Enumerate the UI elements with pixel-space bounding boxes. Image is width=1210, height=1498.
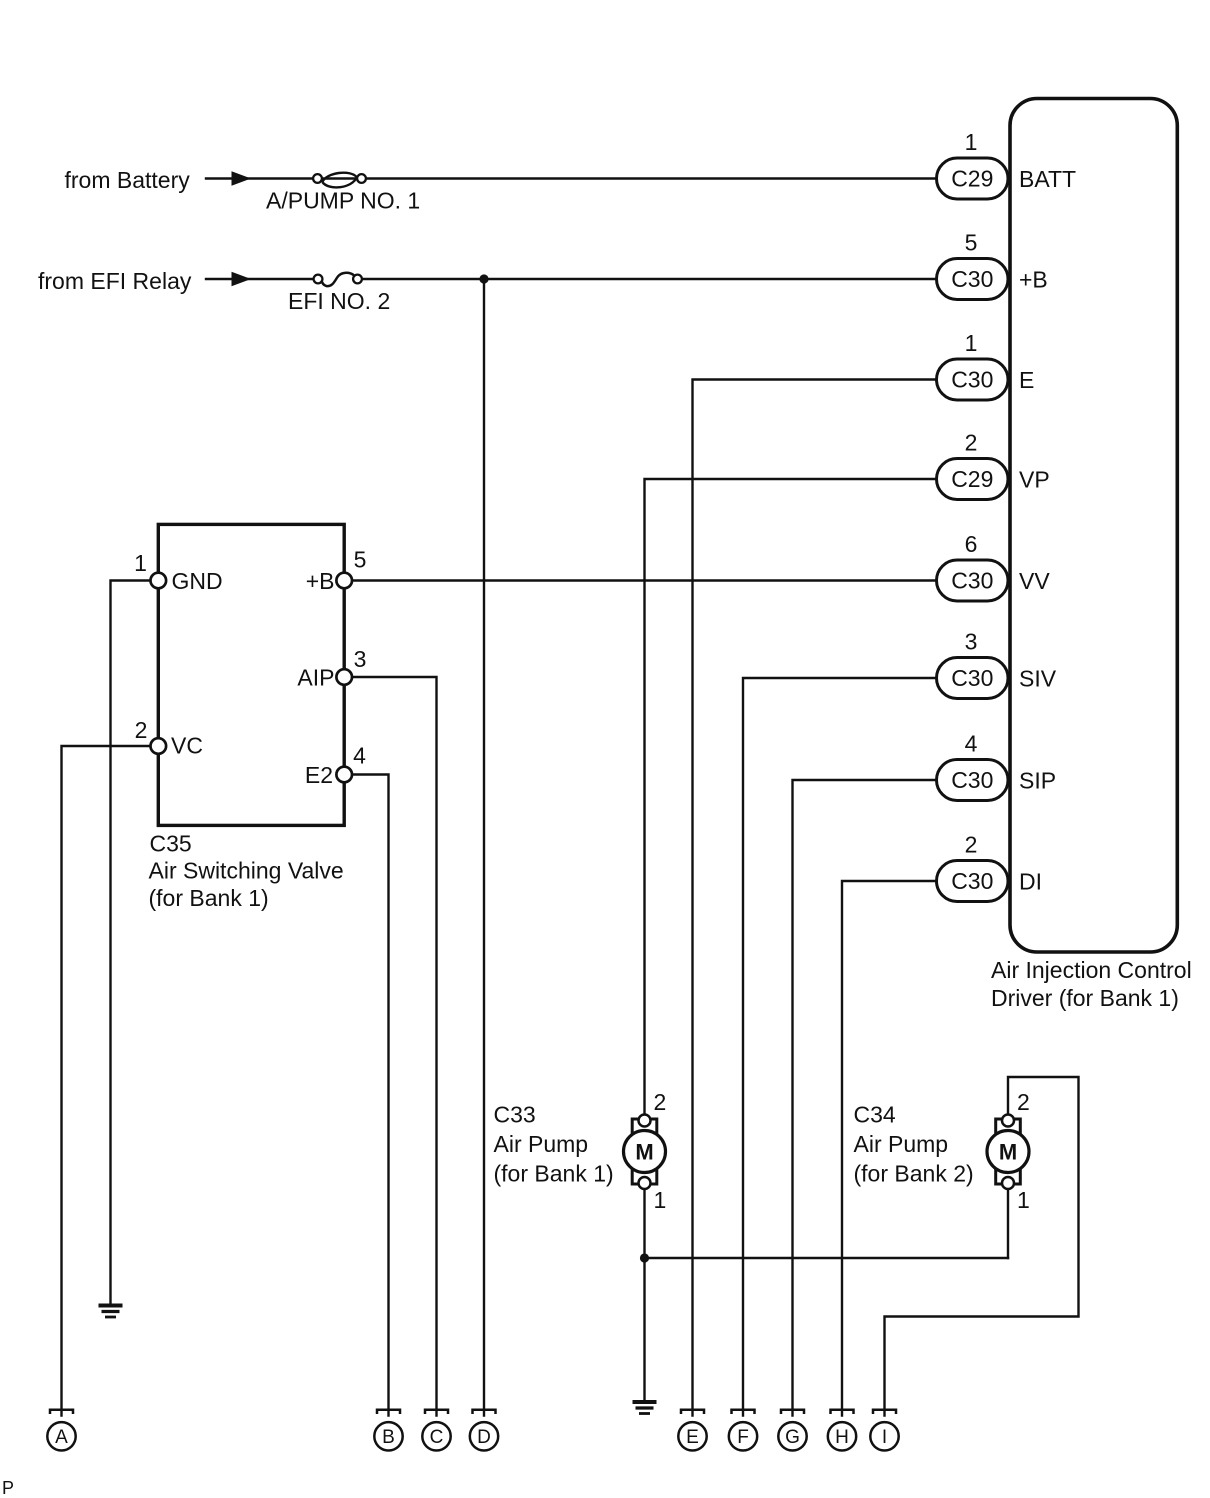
svg-text:C29: C29 (951, 165, 993, 191)
svg-text:GND: GND (172, 568, 223, 594)
svg-text:1: 1 (134, 550, 147, 576)
svg-text:C29: C29 (951, 466, 993, 492)
svg-text:C: C (430, 1427, 444, 1448)
svg-text:AIP: AIP (297, 665, 334, 691)
svg-text:E2: E2 (305, 762, 333, 788)
svg-text:VP: VP (1019, 467, 1050, 493)
svg-text:SIV: SIV (1019, 666, 1057, 692)
svg-text:Air Pump: Air Pump (854, 1131, 949, 1157)
svg-text:Air Switching Valve: Air Switching Valve (149, 858, 344, 884)
svg-text:Driver (for Bank 1): Driver (for Bank 1) (991, 985, 1179, 1011)
svg-text:Air Pump: Air Pump (494, 1131, 589, 1157)
svg-text:2: 2 (1017, 1089, 1030, 1115)
svg-text:4: 4 (353, 743, 366, 769)
svg-text:C34: C34 (854, 1102, 896, 1128)
svg-text:5: 5 (354, 547, 367, 573)
svg-text:C30: C30 (951, 366, 993, 392)
svg-text:5: 5 (965, 230, 978, 256)
svg-text:VC: VC (171, 733, 203, 759)
svg-text:(for Bank 1): (for Bank 1) (149, 885, 269, 911)
svg-text:C30: C30 (951, 868, 993, 894)
svg-text:M: M (999, 1140, 1017, 1165)
svg-text:1: 1 (965, 330, 978, 356)
svg-text:+B: +B (1019, 267, 1048, 293)
svg-text:2: 2 (654, 1089, 667, 1115)
svg-text:C30: C30 (951, 567, 993, 593)
svg-text:3: 3 (965, 629, 978, 655)
svg-text:BATT: BATT (1019, 166, 1076, 192)
svg-text:G: G (785, 1427, 800, 1448)
svg-text:C30: C30 (951, 767, 993, 793)
svg-text:EFI NO. 2: EFI NO. 2 (288, 288, 390, 314)
svg-text:C33: C33 (494, 1102, 536, 1128)
svg-text:6: 6 (965, 531, 978, 557)
svg-text:+B: +B (306, 568, 335, 594)
svg-text:DI: DI (1019, 869, 1042, 895)
svg-text:1: 1 (654, 1187, 667, 1213)
svg-text:C35: C35 (150, 831, 192, 857)
svg-text:Air Injection Control: Air Injection Control (991, 957, 1192, 983)
svg-text:2: 2 (135, 717, 148, 743)
svg-text:1: 1 (965, 129, 978, 155)
svg-text:C30: C30 (951, 266, 993, 292)
svg-text:4: 4 (965, 731, 978, 757)
svg-text:A/PUMP NO. 1: A/PUMP NO. 1 (266, 188, 420, 214)
svg-text:3: 3 (354, 646, 367, 672)
svg-text:M: M (635, 1140, 653, 1165)
svg-text:SIP: SIP (1019, 768, 1056, 794)
svg-text:F: F (737, 1427, 749, 1448)
svg-text:P: P (2, 1478, 14, 1498)
svg-text:D: D (477, 1427, 491, 1448)
svg-text:C30: C30 (951, 665, 993, 691)
svg-text:(for Bank 2): (for Bank 2) (854, 1161, 974, 1187)
svg-text:E: E (686, 1427, 699, 1448)
svg-text:2: 2 (965, 430, 978, 456)
svg-text:2: 2 (965, 832, 978, 858)
svg-text:A: A (55, 1427, 68, 1448)
svg-text:(for Bank 1): (for Bank 1) (494, 1161, 614, 1187)
svg-text:B: B (382, 1427, 395, 1448)
svg-text:H: H (835, 1427, 849, 1448)
svg-text:from Battery: from Battery (65, 167, 191, 193)
svg-text:from EFI Relay: from EFI Relay (38, 268, 192, 294)
svg-text:VV: VV (1019, 568, 1050, 594)
svg-text:1: 1 (1017, 1187, 1030, 1213)
svg-text:I: I (882, 1427, 887, 1448)
svg-text:E: E (1019, 367, 1034, 393)
